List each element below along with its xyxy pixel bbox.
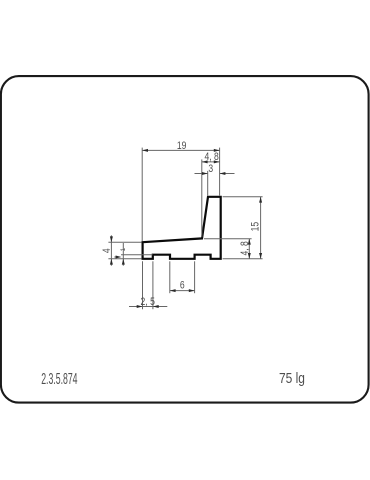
dimension line 1 bbox=[122, 243, 124, 266]
dimension line 19 bbox=[142, 149, 219, 151]
svg-text:75 lg: 75 lg bbox=[279, 370, 305, 386]
profile outline (extrusion cross-section) bbox=[143, 197, 221, 259]
svg-text:4, 8: 4, 8 bbox=[204, 151, 219, 163]
extension line top right for dim 15 bbox=[223, 196, 263, 198]
arrowhead 2,5 right (outside) bbox=[153, 305, 159, 308]
arrowhead 6 right bbox=[189, 289, 195, 292]
dimension line 6 bbox=[170, 290, 195, 292]
extension line right of dim 6 bbox=[194, 261, 196, 293]
arrowhead 15 bottom bbox=[259, 253, 262, 259]
dimension line 3 right outside segment bbox=[220, 173, 235, 175]
extension line groove level for dim 1 bbox=[121, 254, 153, 256]
svg-text:1: 1 bbox=[120, 247, 127, 251]
arrowhead 4,8 right bottom bbox=[248, 253, 251, 259]
extension line bottom right for dims 15 and 4,8 bbox=[223, 258, 263, 260]
svg-text:19: 19 bbox=[177, 140, 187, 152]
dimension line 2,5 bbox=[129, 306, 167, 308]
svg-text:15: 15 bbox=[249, 221, 261, 231]
arrowhead 4,8 top left bbox=[202, 160, 208, 163]
arrowhead 4,8 top right bbox=[214, 160, 220, 163]
extension line left of dim 2,5 bbox=[142, 261, 144, 309]
dimension line 4,8 right bbox=[248, 239, 250, 259]
extension line left of dim 3 bbox=[207, 171, 209, 196]
arrowhead 3 right (outside) bbox=[220, 172, 226, 175]
svg-text:3: 3 bbox=[208, 163, 213, 175]
dimension line 3 left outside segment bbox=[195, 173, 208, 175]
drawing frame border bbox=[1, 76, 369, 403]
arrowhead 2,5 left (outside) bbox=[137, 305, 143, 308]
extension line right of dim 2,5 bbox=[152, 261, 154, 309]
svg-text:2, 5: 2, 5 bbox=[141, 296, 156, 308]
arrowhead 19 right bbox=[214, 149, 220, 152]
svg-text:4, 8: 4, 8 bbox=[239, 241, 251, 256]
svg-text:2.3.5.874: 2.3.5.874 bbox=[41, 370, 77, 387]
arrowhead 1 bottom (outside below) bbox=[122, 259, 125, 265]
svg-text:4: 4 bbox=[101, 248, 113, 253]
dimension line 4,8 top bbox=[202, 161, 220, 163]
dimension line 4 bbox=[110, 235, 112, 265]
arrowhead 6 left bbox=[170, 289, 176, 292]
extension line for dim 4,8 right bbox=[204, 238, 252, 240]
arrowhead 4,8 right top bbox=[248, 239, 251, 245]
arrowhead 4 bottom (outside below) bbox=[110, 259, 113, 265]
extension line top left for dim 4 bbox=[108, 241, 141, 243]
arrowhead 3 left (outside) bbox=[202, 172, 208, 175]
extension line left of dim 19 bbox=[141, 148, 143, 241]
leader line of dim 1 bbox=[114, 256, 119, 258]
extension line left of dim 4,8 top bbox=[201, 159, 203, 237]
arrowhead leader of dim 1 bbox=[116, 256, 122, 259]
svg-text:6: 6 bbox=[180, 280, 185, 292]
arrowhead 15 top bbox=[259, 197, 262, 203]
arrowhead 4 top (outside above) bbox=[110, 236, 113, 242]
extension line right of dim 19 bbox=[219, 148, 221, 196]
arrowhead 19 left bbox=[142, 149, 148, 152]
extension line left of dim 6 bbox=[169, 261, 171, 293]
dimension line 15 bbox=[260, 197, 262, 259]
extension line bottom left for dims 4 and 1 bbox=[108, 258, 141, 260]
